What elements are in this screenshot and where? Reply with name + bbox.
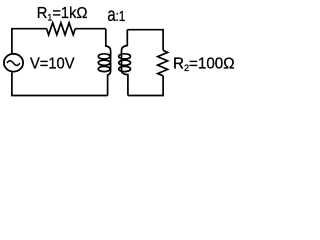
- svg-text:a:1: a:1: [107, 4, 125, 25]
- svg-text:V=10V: V=10V: [30, 55, 75, 73]
- wire top-left: source top to R1: [12, 29, 47, 54]
- resistor R1: [47, 23, 76, 35]
- AC source V: [4, 54, 23, 72]
- wire R1 to transformer primary: [75, 28, 106, 30]
- svg-text:R2=100Ω: R2=100Ω: [173, 55, 235, 73]
- wire top-right: secondary to R2: [127, 30, 163, 51]
- wire R2 to bottom: [128, 76, 163, 96]
- svg-text:R1=1kΩ: R1=1kΩ: [37, 4, 88, 22]
- transformer primary winding L1: [98, 29, 110, 96]
- resistor R2: [158, 50, 168, 76]
- transformer secondary winding L2: [119, 30, 131, 96]
- wire bottom-left: primary to source bottom: [12, 72, 108, 95]
